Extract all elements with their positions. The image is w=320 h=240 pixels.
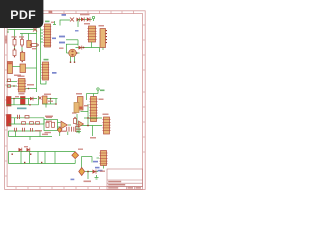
cluster head small (43, 96, 48, 104)
wire U4 left (7, 82, 37, 89)
label mid red (84, 105, 89, 106)
wire ladder1 (9, 131, 53, 140)
ground sym (77, 128, 81, 133)
label row2 b (46, 121, 52, 123)
wire K1 (67, 53, 80, 62)
connector J5 (41, 62, 49, 80)
diode D11 (81, 17, 84, 21)
label R14 (72, 112, 77, 113)
IC U3 (100, 29, 107, 48)
junction U4 (13, 85, 15, 87)
label J5 green (44, 59, 49, 61)
label teal gnd (17, 108, 27, 110)
label ladder1b (42, 134, 48, 136)
title text row3b (128, 187, 134, 188)
resistor R5 (30, 44, 39, 47)
resistor R15 (76, 127, 80, 132)
label row2 a (46, 117, 52, 119)
label net (5, 36, 7, 44)
label red bottom (84, 181, 92, 183)
label J1 green (45, 21, 50, 23)
label U3 (99, 25, 105, 27)
connector J1 (43, 24, 51, 47)
junction row (13, 98, 15, 100)
title text row1 (108, 181, 121, 183)
diode D12 (87, 17, 90, 21)
label J1 red (51, 22, 55, 23)
frame column ticks bottom (16, 187, 100, 190)
label head2 (48, 101, 53, 102)
wire U5 (58, 123, 72, 128)
wire top mid (53, 20, 70, 26)
wire ladder2 (9, 152, 76, 164)
resistor R8 (25, 116, 29, 119)
frame column ticks top (16, 11, 134, 14)
label U7 (99, 99, 104, 101)
wire mid right net (76, 42, 104, 52)
label blue AIN1 (59, 36, 65, 38)
pin marks ladder2 (12, 154, 43, 164)
capacitor C6 (20, 51, 25, 62)
capacitor C1 (7, 97, 12, 107)
ground bottom (95, 175, 99, 179)
IC U8 (102, 117, 110, 134)
label right U4 (27, 84, 34, 86)
resistor R2 (21, 38, 24, 47)
resistor R1 (13, 38, 16, 47)
op-amp U9 (79, 121, 84, 127)
diode D7 (27, 148, 30, 152)
motor K1 (69, 49, 77, 57)
label blue J4 (95, 167, 100, 169)
wire cluster head (43, 99, 58, 108)
connector J3 (8, 62, 13, 74)
frame row ticks left (5, 25, 8, 176)
capacitor C10 (31, 128, 33, 132)
supply +5V right (97, 88, 99, 94)
label below U4 (19, 93, 25, 95)
resistor R7 (8, 85, 11, 88)
label cluster (32, 48, 37, 49)
label U2 (84, 23, 90, 25)
resistor R14 (74, 117, 77, 124)
wire top-left net bus (10, 30, 37, 69)
capacitor C7 (18, 115, 20, 119)
label U6 (76, 93, 82, 95)
frame row ticks right (143, 25, 146, 152)
wire small net (76, 114, 78, 133)
label blue bottom (71, 179, 75, 181)
IC U6 (78, 97, 84, 111)
junction (83, 47, 85, 49)
label blue RX (52, 38, 56, 40)
label D2 D3 (80, 14, 90, 16)
IC U4 (17, 79, 26, 93)
junction right (87, 125, 89, 127)
capacitor C2 (21, 97, 26, 105)
label U8 (103, 114, 109, 116)
label R2 (19, 36, 24, 37)
label U9 (76, 129, 81, 130)
resistor R9 (22, 122, 26, 125)
wire right block (80, 104, 102, 136)
LED D9 (79, 168, 85, 176)
label D8 (78, 149, 83, 150)
title block (107, 169, 143, 189)
diode D6 (19, 148, 22, 152)
label blue net2 (93, 161, 98, 163)
capacitor C9 (23, 128, 25, 132)
label blue RXD (98, 170, 103, 172)
diode D10 (93, 170, 97, 174)
label head (44, 94, 51, 96)
IC X1 (27, 41, 31, 48)
label ladder1 (35, 130, 42, 132)
label blue net (62, 14, 67, 16)
junction head (50, 98, 52, 100)
diode D1 (33, 28, 37, 32)
wire LED row (7, 96, 39, 105)
label green supply (100, 90, 105, 92)
diode D4 (30, 97, 33, 101)
LED D5 (57, 127, 62, 136)
title text row3c (136, 187, 142, 188)
label ladder2 (24, 146, 28, 147)
resistor R11 (36, 122, 40, 125)
resistor R12 (46, 122, 49, 127)
PDF badge (0, 0, 43, 28)
label R1 (12, 36, 17, 37)
wire J3-X2 (13, 67, 37, 93)
capacitor C3 (7, 115, 12, 127)
label box (45, 116, 53, 118)
label box below (45, 132, 52, 133)
label U5 (60, 131, 66, 133)
label red left of tblock (100, 171, 105, 172)
wire bus J1 (32, 28, 46, 85)
diode D3 (77, 18, 80, 22)
label blue (75, 30, 79, 32)
label top red (49, 11, 53, 14)
svg-text:PDF: PDF (10, 8, 36, 22)
node stub (8, 30, 11, 34)
LED D8 (72, 152, 79, 164)
capacitor C12 (72, 127, 74, 132)
wire J4 (97, 158, 104, 169)
diode D13 (79, 46, 82, 50)
wire right block top (87, 94, 99, 101)
supply +5V (92, 16, 94, 21)
pin marks K1 (70, 62, 75, 63)
resistor R13 (52, 122, 55, 127)
IC U7 (89, 97, 97, 122)
resistor R6 (8, 79, 11, 82)
capacitor C11 (67, 127, 69, 135)
label D5 (76, 124, 81, 125)
label blue AIN2 (59, 42, 65, 44)
wire top right net (78, 20, 92, 28)
title text row2 (108, 184, 125, 186)
wire AIN (66, 40, 78, 53)
label U4 (18, 76, 25, 78)
resistor R10 (30, 122, 34, 125)
title text row3a (108, 187, 118, 188)
wire box mid (44, 120, 58, 131)
IC X3 (74, 103, 79, 113)
capacitor C8 (15, 128, 17, 132)
label net top (12, 25, 18, 26)
label blue J5 (52, 72, 57, 74)
IC U2 (87, 26, 96, 42)
resistor R3 (13, 48, 16, 57)
wire row2 top (9, 118, 45, 124)
junction bottom (87, 171, 89, 173)
diode D2 (70, 18, 74, 22)
op-amp U5 (61, 121, 67, 129)
IC X2 (20, 64, 26, 73)
diode D14 (39, 97, 42, 100)
junction K1 (76, 52, 78, 54)
wire bottom net (82, 157, 99, 180)
connector J4 (99, 151, 107, 166)
frame outer border (5, 11, 146, 190)
label below wire (90, 137, 96, 139)
label D4 (15, 96, 19, 97)
label K1 (59, 48, 64, 49)
label X2 (14, 75, 21, 77)
